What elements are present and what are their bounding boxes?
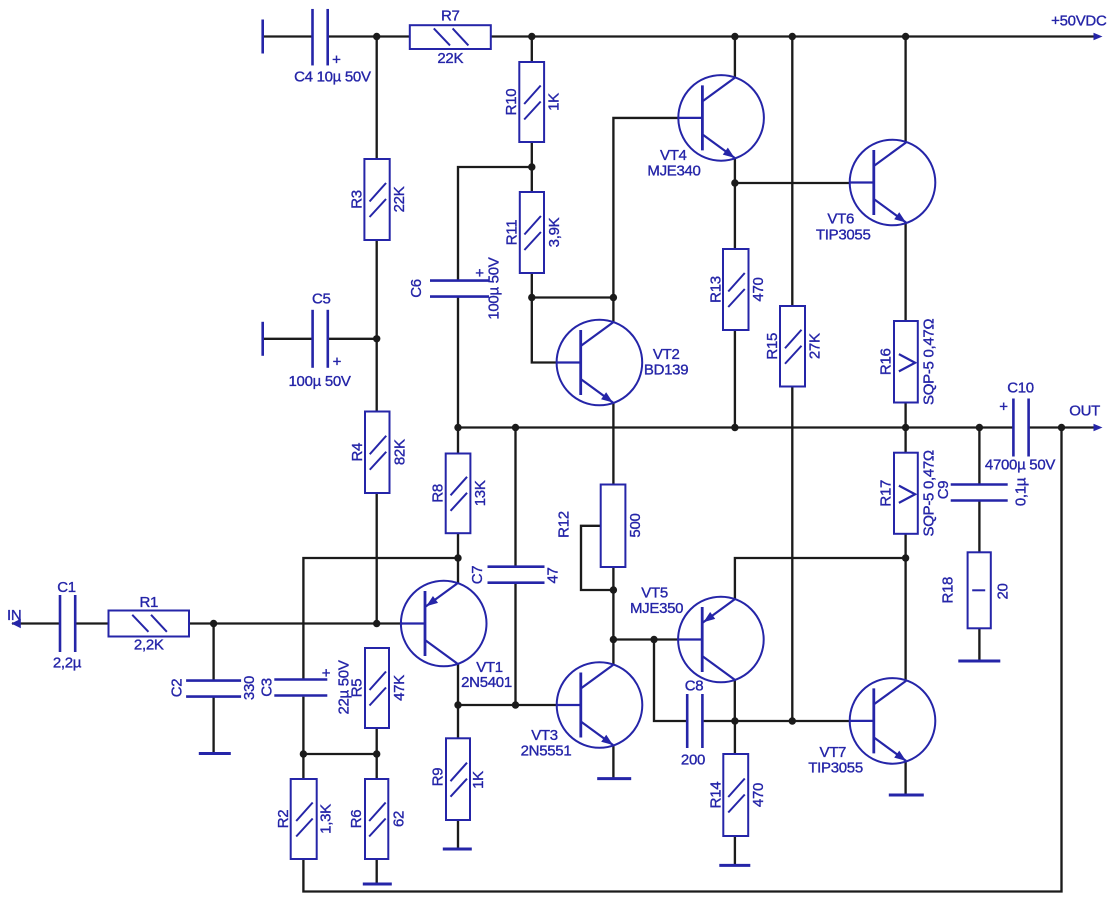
- wire C8 branch: [654, 640, 686, 722]
- capacitor C2 plates: [169, 676, 259, 700]
- svg-text:R15: R15: [764, 333, 781, 360]
- resistor R18: [940, 552, 1012, 628]
- net label IN: [7, 607, 21, 624]
- capacitor C6 plates: [408, 257, 503, 319]
- wire R9 to ground: [457, 820, 459, 849]
- svg-text:VT4: VT4: [660, 147, 687, 164]
- svg-text:1K: 1K: [470, 771, 487, 789]
- arrow IN: [11, 619, 20, 629]
- wire +50VDC rail R7 to arrow: [491, 35, 1097, 37]
- wire C9 to R18: [978, 501, 980, 553]
- svg-text:2,2K: 2,2K: [134, 637, 164, 654]
- wire R3 to R4 through C5 node: [376, 240, 378, 412]
- wire VT1 collector node to VT3 base: [458, 704, 557, 706]
- svg-text:R6: R6: [348, 810, 365, 829]
- svg-text:82K: 82K: [391, 439, 408, 465]
- wire VT1 collector: [457, 664, 459, 706]
- capacitor C4 plates: [294, 9, 371, 86]
- capacitor C5 plates: [289, 291, 351, 391]
- wire R14 to ground: [734, 836, 736, 865]
- svg-text:R1: R1: [139, 594, 158, 611]
- ground C2: [199, 752, 231, 755]
- svg-text:1K: 1K: [546, 93, 563, 111]
- wire VT4 emitter to node: [734, 158, 736, 183]
- wire C5 stub to C5: [263, 338, 312, 340]
- wire VT4 collector to rail: [734, 37, 736, 79]
- svg-text:MJE350: MJE350: [630, 600, 683, 617]
- svg-text:R5: R5: [349, 679, 366, 698]
- svg-text:VT5: VT5: [641, 585, 668, 602]
- resistor R2: [275, 779, 335, 859]
- svg-text:47: 47: [545, 567, 562, 583]
- resistor R11: [503, 192, 563, 273]
- svg-text:OUT: OUT: [1069, 403, 1100, 420]
- wire output bus left of C10: [458, 426, 1013, 428]
- transistor VT3: [521, 662, 643, 759]
- svg-text:R18: R18: [940, 577, 957, 604]
- wire +50VDC rail left segment (C4 stub to C4): [263, 35, 312, 37]
- wire R10 to R11 through node: [531, 142, 533, 192]
- svg-text:62: 62: [391, 811, 408, 827]
- wire VT5 base line: [613, 638, 678, 640]
- resistor R5: [349, 648, 409, 728]
- resistor R15: [764, 306, 824, 387]
- resistor R3: [349, 159, 409, 240]
- arrow OUT: [1094, 424, 1103, 432]
- wire VT5 collector: [734, 679, 736, 721]
- transistor VT4: [647, 75, 764, 179]
- transistor VT6: [816, 140, 935, 244]
- svg-text:BD139: BD139: [644, 362, 688, 379]
- wire R12 node to VT5 base node: [612, 590, 614, 640]
- capacitor C7 plates: [469, 566, 562, 585]
- svg-text:R13: R13: [707, 276, 724, 303]
- wire R14 top: [734, 721, 736, 754]
- svg-text:C8: C8: [685, 678, 704, 695]
- svg-text:R16: R16: [877, 348, 894, 375]
- svg-text:R8: R8: [430, 484, 447, 503]
- capacitor C10 plates: [985, 380, 1055, 474]
- wire VT7 emitter to ground: [904, 761, 906, 796]
- wire R12 bottom: [612, 567, 614, 590]
- resistor R8: [430, 454, 490, 534]
- wire R13 top: [734, 183, 736, 249]
- svg-text:R14: R14: [707, 782, 724, 809]
- svg-text:4700µ 50V: 4700µ 50V: [985, 457, 1055, 474]
- wire R18 to ground: [978, 628, 980, 661]
- svg-text:C1: C1: [57, 579, 76, 596]
- wire input line C1 to R1: [76, 622, 109, 624]
- svg-text:+: +: [333, 354, 342, 371]
- wire R15 top: [791, 37, 793, 307]
- transistor VT7: [808, 678, 935, 776]
- ground VT7: [889, 794, 924, 797]
- wire C7 bottom: [514, 583, 516, 706]
- svg-text:470: 470: [750, 277, 767, 301]
- wire VT2 node link: [532, 296, 614, 298]
- svg-text:22K: 22K: [391, 186, 408, 212]
- svg-text:MJE340: MJE340: [647, 163, 700, 180]
- resistor R7: [410, 8, 491, 68]
- wire node to C6 top: [458, 167, 532, 280]
- wire R8 top: [457, 428, 459, 454]
- wire C6 bottom to output bus: [457, 297, 459, 427]
- svg-text:R10: R10: [503, 89, 520, 116]
- wire R9 top: [457, 705, 459, 738]
- svg-text:SQP-5 0,47Ω: SQP-5 0,47Ω: [921, 319, 938, 405]
- svg-text:2,2µ: 2,2µ: [53, 655, 82, 672]
- svg-text:+: +: [322, 665, 331, 682]
- trimmer R12: [556, 485, 645, 568]
- resistor R16: [877, 319, 937, 405]
- svg-text:0,1µ: 0,1µ: [1013, 477, 1030, 506]
- capacitor C1 plates: [53, 579, 82, 672]
- svg-text:22K: 22K: [437, 50, 463, 67]
- svg-text:27K: 27K: [807, 333, 824, 359]
- svg-text:200: 200: [681, 752, 705, 769]
- svg-text:470: 470: [750, 783, 767, 807]
- transistor VT1: [401, 581, 512, 691]
- wire R8 bottom to feedback node: [457, 533, 459, 558]
- svg-text:+: +: [999, 399, 1008, 416]
- wire input line IN to C1: [12, 622, 60, 624]
- svg-text:100µ 50V: 100µ 50V: [289, 373, 351, 390]
- svg-text:C9: C9: [935, 481, 952, 500]
- wire VT2 collector: [612, 298, 614, 323]
- wire R2 to feedback line and up to OUT: [303, 428, 1061, 892]
- wire R12 tap: [581, 526, 613, 590]
- svg-text:C7: C7: [469, 566, 486, 585]
- arrow +50VDC: [1094, 33, 1103, 41]
- svg-text:R4: R4: [349, 443, 366, 462]
- svg-text:VT6: VT6: [827, 211, 854, 228]
- svg-text:+: +: [475, 265, 484, 282]
- svg-text:2N5551: 2N5551: [521, 743, 572, 760]
- svg-text:+: +: [332, 52, 341, 69]
- transistor VT2: [557, 320, 689, 406]
- resistor R17: [877, 450, 937, 536]
- svg-text:TIP3055: TIP3055: [816, 227, 871, 244]
- svg-text:20: 20: [995, 583, 1012, 599]
- wire C2 branch down: [212, 624, 214, 681]
- wire input line R1 to VT1 base: [189, 622, 403, 624]
- wire node A to R6: [303, 754, 376, 779]
- ground R6: [363, 883, 392, 886]
- ground R9: [443, 848, 472, 851]
- wire +50VDC rail C4 to R7: [328, 35, 410, 37]
- resistor R14: [707, 754, 767, 836]
- svg-text:47K: 47K: [391, 675, 408, 701]
- svg-text:330: 330: [241, 676, 258, 700]
- wire R11 bottom to VT2 node: [531, 273, 533, 298]
- resistor R13: [707, 249, 767, 330]
- wire VT1 emitter: [457, 558, 459, 584]
- svg-text:C3: C3: [259, 678, 276, 697]
- ground R14: [719, 864, 750, 867]
- wire R15 bottom to VT7 base line: [791, 387, 793, 722]
- resistor R4: [349, 412, 409, 494]
- svg-text:VT7: VT7: [819, 744, 846, 761]
- capacitor C9 plates: [935, 477, 1030, 506]
- svg-text:VT3: VT3: [531, 727, 558, 744]
- wire C3 node to feedback tap line: [303, 558, 458, 679]
- svg-text:C4 10µ 50V: C4 10µ 50V: [294, 69, 371, 86]
- svg-text:R3: R3: [349, 190, 366, 209]
- wire C9 top: [978, 428, 980, 485]
- wire R3 column rail to R3: [376, 37, 378, 160]
- svg-text:1,3K: 1,3K: [318, 804, 335, 834]
- resistor R6: [348, 779, 408, 859]
- wire VT4 base: [613, 118, 678, 298]
- wire R17 bottom to node: [904, 534, 906, 558]
- svg-text:C5: C5: [312, 291, 331, 308]
- capacitor C3 plates: [259, 660, 353, 714]
- wire R10 top: [531, 37, 533, 63]
- wire C3 to R2 node: [302, 697, 304, 754]
- ground R18: [958, 660, 1000, 663]
- svg-text:VT2: VT2: [653, 346, 680, 363]
- transistor VT5: [630, 585, 764, 683]
- wire VT6 collector to rail: [904, 37, 906, 143]
- svg-text:R9: R9: [430, 768, 447, 787]
- wire VT5 emitter riser: [735, 558, 906, 600]
- wire VT2 emitter to R12: [612, 403, 614, 485]
- svg-text:TIP3055: TIP3055: [808, 760, 863, 777]
- resistor R1: [109, 594, 190, 654]
- wire C7 top: [514, 428, 516, 568]
- ground VT3: [597, 777, 631, 780]
- svg-text:500: 500: [627, 513, 644, 537]
- wire VT3 collector: [612, 640, 614, 666]
- svg-text:R2: R2: [275, 810, 292, 829]
- wire R5 bottom to node A: [376, 728, 378, 754]
- terminal stub C4 left: [261, 20, 264, 54]
- svg-text:C6: C6: [408, 279, 425, 298]
- svg-text:3,9K: 3,9K: [546, 217, 563, 247]
- svg-text:R7: R7: [441, 8, 460, 25]
- svg-text:2N5401: 2N5401: [461, 674, 512, 691]
- wire R4 to input line: [376, 493, 378, 624]
- wire R6 to ground: [376, 859, 378, 884]
- net label +50VDC: [1051, 13, 1107, 30]
- svg-text:13K: 13K: [472, 480, 489, 506]
- wire C2 to ground: [212, 697, 214, 754]
- wire C5 to R3/R4 column: [329, 338, 377, 340]
- svg-text:R17: R17: [877, 480, 894, 507]
- svg-text:C2: C2: [169, 679, 186, 698]
- svg-text:R11: R11: [503, 220, 520, 246]
- wire R2 top: [302, 754, 304, 779]
- wire output bus right of C10: [1029, 426, 1098, 428]
- terminal stub C5 left: [261, 322, 264, 356]
- net label OUT: [1069, 403, 1100, 420]
- svg-text:C10: C10: [1007, 380, 1034, 397]
- wire R13 bottom to bus: [734, 330, 736, 428]
- resistor R9: [430, 738, 488, 820]
- resistor R10: [503, 62, 563, 142]
- capacitor C8 plates: [681, 678, 705, 769]
- wire VT7 collector: [904, 558, 906, 681]
- wire VT6 emitter to R16: [904, 223, 906, 321]
- svg-text:+50VDC: +50VDC: [1051, 13, 1107, 30]
- svg-text:R12: R12: [556, 511, 573, 538]
- wire VT2 base L: [532, 298, 557, 363]
- wire VT3 emitter to ground: [612, 745, 614, 779]
- wire VT6 base line: [735, 182, 850, 184]
- wire R16 to R17 through bus: [904, 403, 906, 453]
- wire C8 to VT7 base: [704, 720, 851, 722]
- svg-text:100µ 50V: 100µ 50V: [486, 257, 503, 319]
